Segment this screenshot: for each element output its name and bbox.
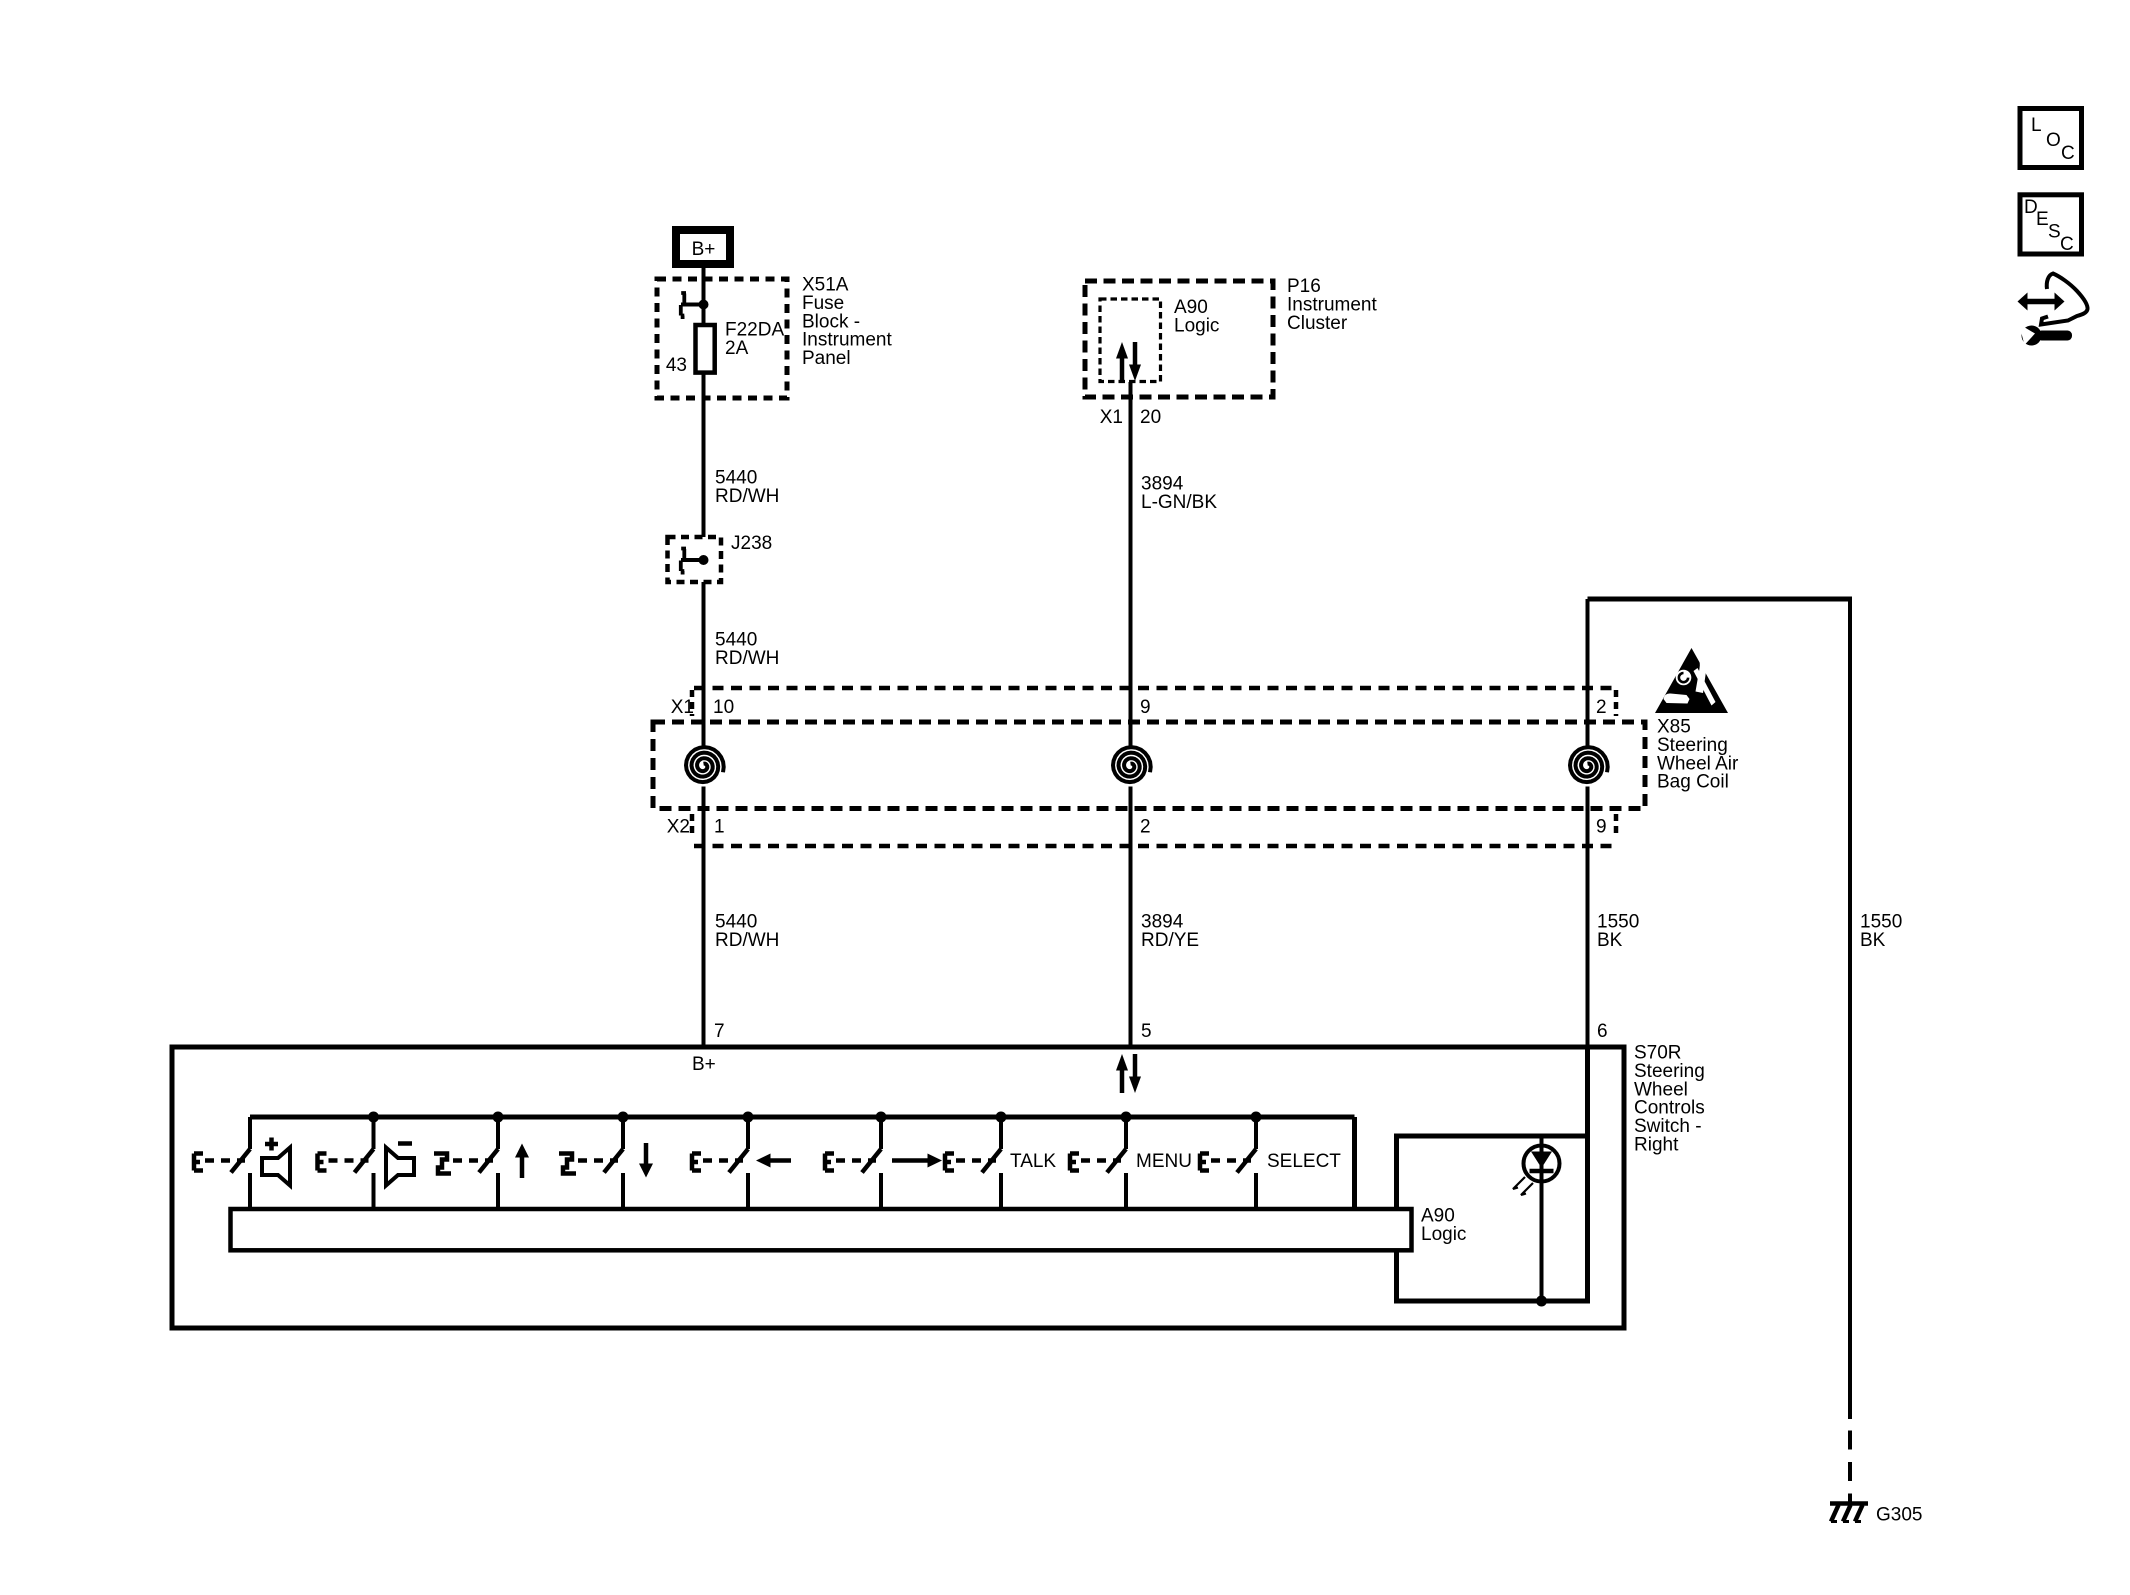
module P16 Instrument Cluster dashed box (1085, 281, 1273, 397)
svg-text:5: 5 (1141, 1021, 1152, 1042)
svg-text:B+: B+ (692, 1054, 716, 1075)
wire through LED position (1540, 1136, 1544, 1301)
actuator dashed link switch 5 (703, 1158, 743, 1163)
actuator bracket switch 8 (1070, 1154, 1079, 1171)
LED indicator (1524, 1146, 1560, 1182)
actuator bracket switch 7 (945, 1154, 954, 1171)
junction dot at X51A terminal (699, 300, 709, 310)
svg-text:Bag Coil: Bag Coil (1657, 772, 1729, 793)
svg-text:C: C (2060, 234, 2074, 255)
air bag warning triangle (1655, 648, 1728, 713)
svg-text:Logic: Logic (1174, 315, 1219, 336)
switch 6 (S70R right) (876, 1112, 887, 1123)
terminal pin symbol in J238 (681, 558, 704, 562)
svg-text:9: 9 (1140, 697, 1151, 718)
connector row X2 dotted line (bottom) (694, 844, 1614, 849)
svg-text:X2: X2 (667, 817, 690, 838)
arrow icon seek down (644, 1143, 649, 1164)
bidirectional signal arrows at pin 5 (1120, 1069, 1125, 1093)
dashed ground lead (1848, 1431, 1852, 1504)
clockspring coil symbol right (1570, 747, 1608, 782)
connector stub right (bottom) (1614, 814, 1619, 838)
switch 2 (S70R volume down) (368, 1112, 379, 1123)
svg-text:9: 9 (1596, 817, 1607, 838)
connector stub left X1 (690, 690, 695, 716)
bidirectional signal arrows in A90 (1120, 357, 1125, 381)
connector stub left X2 (690, 814, 695, 838)
actuator dashed link switch 2 (329, 1158, 369, 1163)
actuator bracket switch 9 (1200, 1154, 1209, 1171)
junction dot at J238 terminal (699, 555, 709, 565)
wire 5440 RD/WH coil to switch pin 7 (702, 787, 706, 1048)
logic bus bar (231, 1209, 1412, 1250)
svg-text:Logic: Logic (1421, 1224, 1466, 1245)
arrow icon seek up (520, 1157, 525, 1178)
wire 1550 BK coil to switch pin 6 (1586, 599, 1590, 746)
arrow icon left (770, 1158, 791, 1163)
svg-text:RD/WH: RD/WH (715, 930, 779, 951)
actuator bracket switch 2 (318, 1154, 327, 1171)
switch 5 (S70R left) (743, 1112, 754, 1123)
speaker icon volume up (265, 1138, 278, 1151)
switch 7 (S70R talk) (996, 1112, 1007, 1123)
svg-text:Panel: Panel (802, 348, 851, 369)
svg-text:C: C (2061, 143, 2075, 164)
svg-text:43: 43 (666, 355, 687, 376)
connector stub right (top) (1614, 690, 1619, 716)
svg-text:1: 1 (714, 817, 725, 838)
svg-text:X1: X1 (1100, 407, 1123, 428)
svg-text:BK: BK (1860, 930, 1886, 951)
svg-text:2: 2 (1596, 697, 1607, 718)
svg-text:RD/YE: RD/YE (1141, 930, 1199, 951)
actuator dashed link switch 9 (1211, 1158, 1251, 1163)
wire from B+ to fuse block (702, 268, 706, 325)
switch 3 (S70R seek up) (493, 1112, 504, 1123)
svg-text:B+: B+ (692, 239, 716, 260)
terminal pin symbol in X51A (681, 303, 704, 307)
svg-text:J238: J238 (731, 533, 772, 554)
fuse F22DA 2A (696, 325, 715, 373)
ground symbol G305 (1830, 1501, 1868, 1506)
bus drop to logic bar (1352, 1117, 1357, 1209)
svg-text:2: 2 (1140, 817, 1151, 838)
svg-text:MENU: MENU (1136, 1151, 1192, 1172)
svg-text:6: 6 (1597, 1021, 1608, 1042)
switch 4 (S70R seek down) (618, 1112, 629, 1123)
actuator dashed link switch 7 (956, 1158, 996, 1163)
svg-text:O: O (2046, 130, 2061, 151)
connector row X1 dotted line (top) (694, 686, 1614, 691)
actuator dashed link switch 4 (578, 1158, 618, 1163)
inline splice J238 dashed box (668, 537, 722, 582)
legend connector-repair icon (2024, 299, 2058, 305)
svg-text:Cluster: Cluster (1287, 313, 1348, 334)
svg-text:L: L (2031, 115, 2042, 136)
actuator dashed link switch 3 (453, 1158, 493, 1163)
svg-text:10: 10 (713, 697, 734, 718)
actuator dashed link switch 8 (1081, 1158, 1121, 1163)
svg-text:TALK: TALK (1010, 1151, 1056, 1172)
wire 5440 RD/WH J238 to coil connector (702, 582, 706, 746)
legend box DESC (2020, 195, 2082, 254)
svg-text:RD/WH: RD/WH (715, 648, 779, 669)
switch assembly S70R box (172, 1047, 1624, 1328)
svg-text:G305: G305 (1876, 1505, 1922, 1526)
actuator bracket switch 5 (692, 1154, 701, 1171)
arrow icon right (892, 1158, 928, 1163)
logic block A90 box (switch) (1397, 1136, 1588, 1301)
wire 1550 BK ground run (1848, 597, 1852, 1420)
svg-text:BK: BK (1597, 930, 1623, 951)
wire jumper top from coil to ground run (1588, 597, 1851, 602)
switch 9 (S70R select) (1251, 1112, 1262, 1123)
svg-text:SELECT: SELECT (1267, 1151, 1341, 1172)
svg-text:20: 20 (1140, 407, 1161, 428)
switch 1 (S70R volume up) (248, 1117, 252, 1149)
junction dot LED return (1536, 1296, 1547, 1307)
svg-text:X1: X1 (671, 697, 694, 718)
wire pin 6 drop along logic box right edge (1585, 1047, 1590, 1301)
logic block A90 dashed box in cluster (1100, 299, 1161, 382)
wire 3894 RD/YE coil to switch pin 5 (1129, 787, 1133, 1048)
svg-text:7: 7 (714, 1021, 725, 1042)
legend box LOC (2020, 109, 2082, 168)
power feed symbol B+ (676, 230, 730, 264)
svg-text:RD/WH: RD/WH (715, 486, 779, 507)
coil X85 dashed box (653, 722, 1645, 809)
switch supply bus (250, 1115, 1355, 1120)
speaker icon volume down (398, 1141, 412, 1146)
svg-text:2A: 2A (725, 338, 749, 359)
svg-text:L-GN/BK: L-GN/BK (1141, 492, 1217, 513)
svg-text:S: S (2048, 222, 2061, 243)
actuator bracket (latching) switch 4 (559, 1154, 576, 1174)
actuator bracket switch 1 (194, 1154, 203, 1171)
svg-text:Right: Right (1634, 1135, 1679, 1156)
clockspring coil symbol middle (1113, 747, 1151, 782)
clockspring coil symbol left (686, 747, 724, 782)
LED emission arrows (1513, 1177, 1525, 1189)
wire 3894 L-GN/BK cluster to coil connector (1129, 382, 1133, 746)
wire 5440 RD/WH fuse to J238 (702, 372, 706, 537)
actuator bracket switch 6 (825, 1154, 834, 1171)
switch 8 (S70R menu) (1121, 1112, 1132, 1123)
svg-text:E: E (2036, 209, 2049, 230)
actuator dashed link switch 1 (205, 1158, 245, 1163)
connector/fuse block X51A dashed box (657, 279, 787, 398)
actuator dashed link switch 6 (836, 1158, 876, 1163)
actuator bracket (latching) switch 3 (434, 1154, 451, 1174)
